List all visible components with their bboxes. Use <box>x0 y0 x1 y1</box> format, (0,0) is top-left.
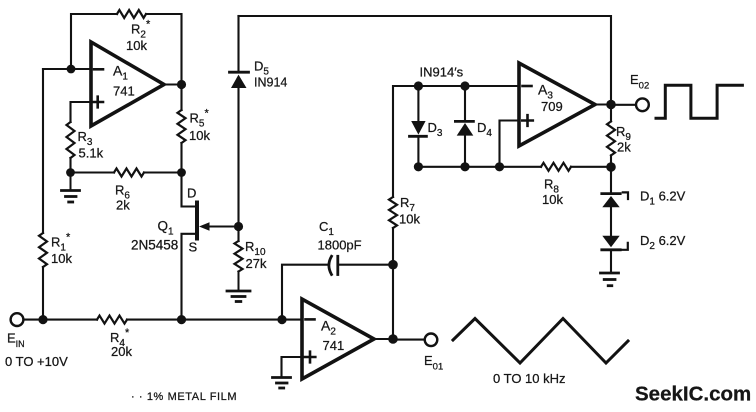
wire A1 inverting-input to R2 top-left loop <box>71 14 117 69</box>
wire A2 inverting node up to C1 <box>282 265 328 320</box>
wire node to R4 <box>43 319 97 321</box>
diode D4 <box>464 86 466 120</box>
node D3 bottom <box>414 162 423 171</box>
node A1 output <box>177 80 186 89</box>
wire node to left rail and to A1 inverting input <box>43 68 91 70</box>
node R5/R6/drain junction <box>177 168 186 177</box>
svg-text:709: 709 <box>541 99 563 114</box>
wire R7 up and right to A3 inverting input <box>393 86 519 197</box>
transistor Q1 drain wire <box>182 173 196 207</box>
resistor R6 <box>114 169 144 177</box>
node A3 non-inverting feedback junction <box>495 162 504 171</box>
svg-text:2N5458: 2N5458 <box>131 238 178 253</box>
zener D2 <box>602 236 619 248</box>
wire A1 output down to R5 <box>180 85 182 111</box>
svg-text:D: D <box>187 186 196 201</box>
node A2 inverting junction <box>277 315 286 324</box>
svg-text:· · 1% METAL FILM: · · 1% METAL FILM <box>131 391 237 403</box>
resistor R3 <box>67 122 75 158</box>
node A3 output <box>606 100 616 110</box>
svg-text:IN914′s: IN914′s <box>420 65 464 80</box>
svg-text:10k: 10k <box>399 212 420 227</box>
svg-text:1800pF: 1800pF <box>318 238 362 253</box>
wire R8 to R9 node <box>571 166 611 168</box>
resistor R2 <box>117 10 146 18</box>
node gate/D5/R10 junction <box>234 222 243 231</box>
wire node to R6 <box>71 171 115 173</box>
triangle wave symbol <box>453 319 628 364</box>
wire node down to A2 output node <box>392 265 394 339</box>
resistor R8 <box>541 163 571 171</box>
wire D5 top lead <box>237 16 239 71</box>
node A1 inverting input <box>67 65 76 74</box>
ground below D2 <box>601 273 619 286</box>
svg-text:0 TO +10V: 0 TO +10V <box>5 354 68 369</box>
transistor Q1 source wire <box>182 234 196 320</box>
svg-text:20k: 20k <box>111 344 132 359</box>
svg-text:SeekIC.com: SeekIC.com <box>635 383 751 406</box>
wire to E01 terminal <box>393 339 424 341</box>
wire R7 lower lead <box>392 228 394 265</box>
op-amp A2 <box>302 299 374 379</box>
transistor Q1 channel bar <box>195 203 199 239</box>
op-amp A3 <box>519 63 595 146</box>
resistor R1 <box>39 233 47 267</box>
resistor R7 <box>389 197 397 228</box>
wire R5 to node <box>180 143 182 173</box>
ground below R3 node <box>62 173 80 203</box>
square wave symbol <box>656 85 742 118</box>
svg-text:10k: 10k <box>126 38 147 53</box>
wire top rail from D5 to A3 output column <box>239 16 612 105</box>
wire R6 to R5 node <box>144 171 182 173</box>
diode D3 <box>417 86 419 121</box>
diode D5 <box>230 71 249 74</box>
capacitor C1 <box>329 256 332 274</box>
wire C1 to R7 node <box>338 264 393 266</box>
wire R1 to input node <box>42 267 44 320</box>
terminal Ein <box>11 313 24 326</box>
wire D1 to D2 <box>610 207 612 236</box>
resistor R9 <box>610 105 612 122</box>
wire D2 to ground <box>610 250 612 272</box>
terminal E02 <box>636 98 649 111</box>
ground below A2 <box>273 378 291 389</box>
resistor R4 <box>97 316 127 324</box>
svg-text:741: 741 <box>113 84 135 99</box>
resistor R10 <box>237 227 239 242</box>
resistor R5 <box>178 110 186 143</box>
svg-text:5.1k: 5.1k <box>79 146 104 161</box>
node A2 output <box>388 334 398 344</box>
svg-text:S: S <box>189 240 198 255</box>
node source junction <box>177 315 186 324</box>
wire R4 to A2 inverting input <box>127 319 302 321</box>
wire left rail down to R1 <box>42 69 44 233</box>
wire to E02 terminal <box>611 104 636 106</box>
svg-text:10k: 10k <box>51 251 72 266</box>
wire A2 output <box>374 338 393 340</box>
wire Ein to node <box>24 319 43 321</box>
node R3/R6/ground junction <box>66 168 75 177</box>
node D3 top <box>414 81 423 90</box>
node R9/R8/D1 junction <box>606 162 616 172</box>
wire D5 to gate node <box>237 88 239 227</box>
svg-text:0 TO 10 kHz: 0 TO 10 kHz <box>493 371 566 386</box>
op-amp A1 <box>91 42 164 126</box>
terminal E01 <box>425 334 438 347</box>
node Ein junction <box>38 315 47 324</box>
node D4 top <box>460 81 469 90</box>
svg-text:27k: 27k <box>246 256 267 271</box>
wire R3 to ground node <box>69 158 71 173</box>
svg-text:IN914: IN914 <box>254 76 287 90</box>
svg-text:10k: 10k <box>542 192 563 207</box>
svg-text:10k: 10k <box>189 128 210 143</box>
transistor Q1 gate wire with arrow <box>206 225 239 227</box>
svg-text:741: 741 <box>323 338 345 353</box>
wire diode clamp bottom rail <box>418 166 541 168</box>
wire feedback node up to A3 non-inverting input <box>500 121 520 167</box>
zener D1 <box>610 167 612 192</box>
svg-text:2k: 2k <box>116 198 130 213</box>
node C1/R7 junction <box>388 260 398 270</box>
wire A2 non-inverting to ground <box>282 357 303 377</box>
wire A1 non-inverting input to R3 <box>71 102 92 122</box>
ground below R10 <box>227 272 250 302</box>
wire A3 output <box>595 103 611 105</box>
wire A1 output <box>164 83 182 85</box>
node D4 bottom <box>460 162 469 171</box>
wire R2 right lead down to A1 output <box>146 14 182 85</box>
svg-text:2k: 2k <box>617 140 631 155</box>
